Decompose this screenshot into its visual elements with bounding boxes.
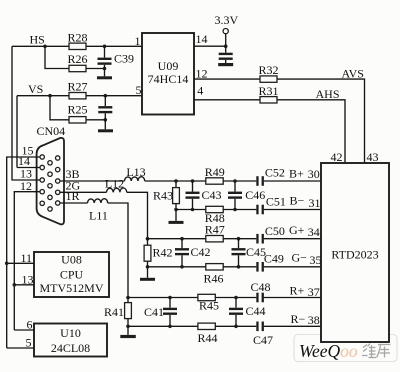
svg-text:C46: C46	[245, 188, 265, 202]
node C46 bottom	[233, 208, 237, 212]
svg-text:R31: R31	[258, 84, 278, 98]
wire U08 pin13	[14, 284, 34, 286]
ground under R42	[140, 278, 155, 281]
svg-text:3.3V: 3.3V	[215, 13, 239, 27]
wire R25 branch	[50, 96, 105, 120]
resistor R32	[260, 76, 277, 82]
resistor R27	[69, 93, 86, 99]
watermark glyph ku	[377, 345, 391, 358]
svg-text:CN04: CN04	[37, 124, 66, 138]
node R41 bottom	[126, 325, 130, 329]
capacitor C48 series	[256, 293, 258, 303]
wire R44 to C47	[215, 325, 256, 327]
ground under R41	[120, 335, 136, 338]
resistor R44	[198, 323, 215, 329]
wire R45 to C48	[215, 297, 256, 299]
svg-text:U10: U10	[60, 326, 81, 340]
node HS junction	[43, 45, 47, 49]
svg-text:C52: C52	[265, 166, 285, 180]
svg-text:L12: L12	[105, 177, 124, 191]
wire U10 pin5	[7, 347, 34, 349]
svg-text:U08: U08	[61, 253, 82, 267]
svg-text:VS: VS	[28, 82, 43, 96]
capacitor C50 series	[256, 234, 258, 244]
capacitor C44	[235, 298, 237, 308]
svg-text:R27: R27	[67, 80, 87, 94]
svg-text:C48: C48	[251, 280, 271, 294]
svg-text:G−: G−	[292, 251, 308, 265]
node C44 bottom	[234, 325, 238, 329]
node C46 top	[233, 179, 237, 183]
wire C49 to RTD pin35	[264, 266, 321, 268]
svg-text:24CL08: 24CL08	[51, 341, 90, 355]
svg-text:4: 4	[197, 84, 203, 98]
CN04 pin holes right column	[56, 156, 60, 160]
resistor R47	[206, 236, 223, 242]
svg-text:RTD2023: RTD2023	[331, 248, 378, 262]
wire R49 to C52	[223, 180, 256, 182]
ground under C39	[97, 76, 112, 79]
node R42 top	[146, 237, 150, 241]
wire R26 branch	[45, 46, 105, 68]
node R25 junction	[104, 118, 108, 122]
wire pin14	[17, 167, 40, 169]
svg-text:38: 38	[308, 313, 320, 327]
svg-text:R49: R49	[205, 165, 225, 179]
wire C51 to RTD pin31	[264, 209, 321, 211]
svg-text:37: 37	[308, 285, 320, 299]
svg-text:R26: R26	[67, 52, 87, 66]
capacitor C42	[181, 239, 183, 248]
svg-text:R41: R41	[104, 305, 124, 319]
svg-text:MTV512MV: MTV512MV	[39, 281, 103, 295]
node pin1 junction	[103, 45, 107, 49]
resistor R45	[198, 294, 215, 300]
inductor L13	[125, 177, 145, 181]
wire pin14 to 3.3V	[194, 45, 226, 47]
svg-text:L11: L11	[89, 208, 108, 222]
resistor R26	[69, 65, 86, 71]
svg-text:C50: C50	[265, 224, 285, 238]
svg-text:C42: C42	[191, 245, 211, 259]
resistor R28	[69, 43, 86, 49]
node pin11 junction	[5, 262, 9, 266]
watermark glyph wei	[362, 344, 376, 358]
svg-text:C39: C39	[114, 52, 134, 66]
node C41 top	[168, 296, 172, 300]
node pin5 junction	[104, 94, 108, 98]
wire B+ row	[145, 180, 206, 182]
svg-text:AHS: AHS	[316, 87, 340, 101]
wire R46 to C49	[223, 266, 256, 268]
capacitor C49 series	[256, 262, 258, 272]
wire pin13	[12, 179, 40, 181]
node C41 bottom	[168, 325, 172, 329]
svg-text:B−: B−	[290, 193, 305, 207]
IC U10 24CL08 box	[34, 324, 107, 357]
svg-text:CPU: CPU	[60, 268, 84, 282]
svg-text:12: 12	[196, 66, 208, 80]
svg-text:L13: L13	[126, 165, 145, 179]
op-amp U09 74HC14 box	[142, 33, 194, 115]
node R43 bottom	[174, 208, 178, 212]
wire HS vertical to CN04 pin13	[11, 46, 13, 180]
capacitor at 3.3V	[219, 53, 233, 55]
wire 1R red row	[60, 202, 88, 204]
svg-text:R−: R−	[291, 312, 306, 326]
IC U08 CPU box	[34, 252, 109, 297]
capacitor C43	[192, 181, 194, 192]
svg-text:12: 12	[20, 179, 32, 193]
wire 3B blue row	[60, 180, 125, 182]
wire 2G green row	[60, 191, 107, 193]
wire R+ row	[128, 297, 198, 299]
svg-text:31: 31	[309, 196, 321, 210]
wire HS net horizontal	[12, 45, 142, 47]
capacitor C52 series	[256, 176, 258, 186]
node C44 top	[234, 296, 238, 300]
watermark WeeQoo	[294, 335, 397, 362]
svg-text:R46: R46	[203, 271, 223, 285]
node C45 bottom	[237, 265, 241, 269]
node R26/C39 junction	[103, 67, 107, 71]
node C43 top	[191, 179, 195, 183]
wire U08 pin11	[7, 262, 34, 264]
wire L11 to R+ row	[108, 203, 128, 298]
inductor L12	[107, 188, 127, 192]
wire pin12 AVS net	[194, 79, 365, 163]
wire R47 to C50	[223, 238, 256, 240]
svg-text:G+: G+	[289, 223, 305, 237]
svg-text:WeeQoo: WeeQoo	[299, 341, 358, 361]
wire C47 to RTD pin38	[264, 325, 321, 327]
svg-text:R+: R+	[290, 284, 305, 298]
CN04 pin holes middle column	[48, 161, 52, 165]
svg-text:42: 42	[331, 150, 343, 164]
svg-text:R28: R28	[67, 31, 87, 45]
wire C48 to RTD pin37	[264, 297, 321, 299]
node C42 bottom	[180, 265, 184, 269]
svg-text:R43: R43	[153, 188, 173, 202]
wire pin4 AHS net	[194, 100, 345, 163]
wire G+ row	[148, 238, 206, 240]
capacitor C39	[104, 46, 106, 57]
capacitor C45	[238, 239, 240, 248]
svg-text:C49: C49	[264, 252, 284, 266]
node pin13 junction	[13, 283, 17, 287]
node 3.3V junction	[224, 44, 228, 48]
svg-text:34: 34	[308, 225, 320, 239]
svg-text:R47: R47	[205, 223, 225, 237]
resistor R42 vertical	[147, 239, 149, 246]
svg-text:43: 43	[367, 150, 379, 164]
node C42 top	[180, 237, 184, 241]
wire L12 to G+ row	[127, 192, 148, 238]
svg-text:C44: C44	[246, 304, 266, 318]
wire C50 to RTD pin34	[264, 238, 321, 240]
svg-text:5: 5	[136, 83, 142, 97]
svg-text:R32: R32	[258, 63, 278, 77]
ground under pin5 cap	[98, 129, 113, 132]
svg-text:R44: R44	[197, 331, 217, 345]
inductor L11	[88, 199, 108, 203]
ground under R43	[169, 221, 184, 224]
CN04 pin holes left column	[40, 155, 44, 159]
svg-text:14: 14	[196, 32, 208, 46]
resistor R48	[206, 206, 223, 212]
node VS junction	[48, 94, 52, 98]
node R43 top	[174, 179, 178, 183]
node R41 top	[126, 296, 130, 300]
svg-text:1: 1	[135, 34, 141, 48]
capacitor C47 series	[256, 322, 258, 332]
resistor R43 vertical	[175, 181, 177, 188]
svg-text:R25: R25	[67, 103, 87, 117]
resistor R46	[206, 264, 223, 270]
svg-text:30: 30	[308, 167, 320, 181]
resistor R31	[260, 97, 277, 103]
svg-text:U09: U09	[158, 59, 179, 73]
wire pin12 to U08/U10	[14, 192, 40, 330]
wire R- row	[128, 325, 198, 327]
node R42 bottom	[146, 265, 150, 269]
svg-text:35: 35	[310, 253, 322, 267]
capacitor C51 series	[256, 205, 258, 215]
ground under 3.3V cap	[218, 63, 233, 66]
wire R48 to C51	[223, 209, 256, 211]
svg-text:HS: HS	[30, 33, 45, 47]
IC RTD2023 box	[321, 163, 389, 342]
wire U10 pin6	[14, 329, 34, 331]
capacitor C41	[169, 298, 171, 308]
wire pin15 to U08/U10	[7, 157, 40, 348]
wire VS vertical to CN04 pin14	[16, 96, 18, 168]
resistor R41 vertical	[127, 298, 129, 303]
wire G- row	[148, 266, 206, 268]
svg-text:R45: R45	[199, 298, 219, 312]
wire B- row	[176, 209, 206, 211]
svg-text:R42: R42	[153, 246, 173, 260]
svg-text:AVS: AVS	[342, 67, 364, 81]
capacitor (unlabeled) at pin5	[104, 96, 106, 106]
svg-text:C47: C47	[253, 333, 273, 347]
svg-text:74HC14: 74HC14	[148, 72, 189, 86]
svg-text:C43: C43	[202, 188, 222, 202]
svg-text:C41: C41	[144, 305, 164, 319]
node C43 bottom	[191, 208, 195, 212]
wire C52 to RTD pin30	[264, 180, 321, 182]
resistor R49	[206, 178, 223, 184]
resistor R25	[69, 117, 86, 123]
svg-text:B+: B+	[289, 166, 304, 180]
svg-text:C51: C51	[266, 194, 286, 208]
wire VS net horizontal	[17, 95, 142, 97]
svg-text:1R: 1R	[66, 189, 80, 203]
node C45 top	[237, 237, 241, 241]
capacitor C46	[234, 181, 236, 192]
